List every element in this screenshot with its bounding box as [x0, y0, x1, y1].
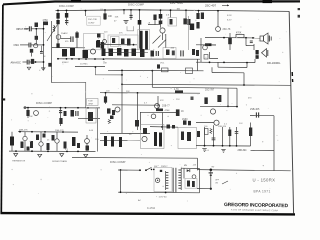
svg-text:2SC-407: 2SC-407: [205, 3, 216, 7]
svg-text:B 9V: B 9V: [227, 15, 232, 17]
svg-text:22K: 22K: [126, 91, 130, 93]
svg-text:2SC-738: 2SC-738: [88, 19, 97, 21]
svg-text:455KC: 455KC: [62, 62, 69, 64]
svg-text:CONV: CONV: [88, 23, 95, 25]
svg-text:470K: 470K: [236, 33, 242, 35]
svg-text:VOL: VOL: [160, 63, 165, 65]
svg-text:470K: 470K: [165, 110, 171, 112]
svg-text:U - 150RX: U - 150RX: [253, 177, 276, 182]
svg-text:PWR-T: PWR-T: [161, 166, 168, 168]
svg-text:C-1744: C-1744: [147, 207, 156, 210]
svg-text:DFL1000DL: DFL1000DL: [267, 62, 281, 65]
svg-text:4.7K: 4.7K: [174, 89, 179, 91]
svg-text:2SB-405: 2SB-405: [250, 108, 260, 111]
svg-text:DISC-COMP: DISC-COMP: [128, 3, 144, 7]
svg-text:BPA 1971: BPA 1971: [254, 189, 271, 193]
svg-text:GREGORD INCORPORATED: GREGORD INCORPORATED: [224, 202, 289, 209]
svg-text:2SB-324: 2SB-324: [218, 126, 227, 128]
svg-text:47K: 47K: [119, 33, 123, 35]
svg-text:50K: 50K: [29, 116, 33, 118]
svg-text:2SC-78: 2SC-78: [223, 29, 232, 31]
svg-text:DISC-COMP: DISC-COMP: [59, 4, 74, 8]
svg-text:A 5V: A 5V: [227, 19, 232, 22]
svg-text:AC: AC: [138, 199, 141, 202]
svg-text:DRIVER TRANS: DRIVER TRANS: [52, 160, 68, 163]
svg-text:50V: 50V: [239, 123, 243, 125]
svg-text:7.5M: 7.5M: [88, 101, 93, 103]
svg-text:2SA52: 2SA52: [61, 32, 68, 35]
svg-text:25V: 25V: [176, 99, 180, 101]
svg-text:AM-AGC: AM-AGC: [11, 61, 22, 65]
svg-text:117V 60: 117V 60: [159, 197, 168, 199]
svg-text:DISC-COMP: DISC-COMP: [36, 101, 52, 105]
svg-text:10K: 10K: [108, 16, 113, 18]
svg-text:1K: 1K: [181, 111, 184, 113]
svg-text:10K: 10K: [115, 17, 119, 19]
svg-text:2SC-787: 2SC-787: [205, 89, 215, 91]
svg-text:47K: 47K: [160, 100, 164, 102]
svg-text:10.7MC: 10.7MC: [80, 63, 88, 65]
svg-text:475K: 475K: [43, 20, 49, 22]
svg-text:OHM: OHM: [88, 103, 93, 105]
svg-text:SW: SW: [154, 166, 157, 168]
svg-text:2SC-403C: 2SC-403C: [170, 0, 183, 4]
svg-text:DISC-COMP: DISC-COMP: [110, 160, 126, 164]
svg-text:THERMISTOR: THERMISTOR: [12, 161, 26, 163]
svg-text:OSC: OSC: [14, 43, 20, 47]
svg-text:LIM: LIM: [103, 62, 107, 64]
svg-text:2SB-77: 2SB-77: [162, 105, 170, 107]
svg-text:2SB-324: 2SB-324: [238, 150, 248, 152]
